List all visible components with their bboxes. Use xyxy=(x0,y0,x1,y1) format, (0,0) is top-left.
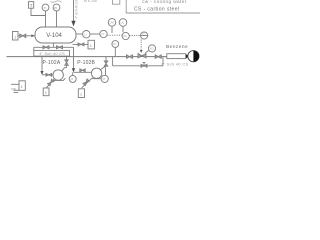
valve on vessel inlet xyxy=(20,34,23,38)
relay LY (panel circle) xyxy=(141,32,148,39)
feed line from condenser xyxy=(73,0,75,21)
block valve downstream xyxy=(155,55,158,58)
off-page box stream 1 xyxy=(13,32,19,41)
pump A suction run xyxy=(42,74,53,76)
pump B suction run xyxy=(74,71,92,73)
svg-text:4" Sch 40 CS: 4" Sch 40 CS xyxy=(75,0,79,19)
pipe spec label box 4" Sch 40 CS xyxy=(34,50,70,56)
fail-open balloon FO xyxy=(148,45,155,52)
svg-text:to E-105: to E-105 xyxy=(84,0,97,3)
suction manifold line xyxy=(34,46,74,48)
svg-text:LY: LY xyxy=(142,33,145,36)
signal LIC to LY (dashed) xyxy=(129,35,140,37)
cropped small box at top xyxy=(113,0,120,4)
manifold left leg into label box xyxy=(33,47,35,50)
pump A drain box xyxy=(43,88,49,96)
cw utility box xyxy=(19,81,25,91)
svg-text:PI: PI xyxy=(71,77,74,81)
drain box stream 2 xyxy=(88,40,95,49)
signal LY to valve (dashed) xyxy=(140,40,142,50)
pump B drain line xyxy=(82,78,93,88)
level alarm high LAH xyxy=(108,19,116,27)
pump A discharge jog xyxy=(62,57,67,71)
pump B suction drop xyxy=(73,47,75,68)
drum right nozzle to level glass xyxy=(76,33,83,35)
cw box bottom step xyxy=(14,90,20,92)
svg-text:T: T xyxy=(30,3,33,8)
bypass globe valve xyxy=(143,62,146,65)
level glass LI xyxy=(83,31,90,38)
bypass run xyxy=(113,65,163,67)
svg-text:4" Sch 40 CS: 4" Sch 40 CS xyxy=(39,52,65,56)
link to FO balloon xyxy=(145,50,149,53)
pump P-102B xyxy=(91,68,101,78)
discharge gauge PI xyxy=(112,41,119,48)
instrument TI xyxy=(42,4,49,11)
LAL stem xyxy=(122,26,124,32)
drain valve xyxy=(78,43,81,46)
svg-text:cw - cooling water: cw - cooling water xyxy=(142,0,187,5)
manifold valve B xyxy=(57,46,60,49)
svg-text:1: 1 xyxy=(45,90,48,95)
legend box border xyxy=(126,0,200,13)
pump B suction valve xyxy=(80,69,83,72)
pump A suction drop xyxy=(41,57,43,72)
manifold valve A xyxy=(43,46,46,49)
svg-text:V-104: V-104 xyxy=(46,33,62,39)
svg-text:LT: LT xyxy=(101,32,104,36)
svg-text:LAL: LAL xyxy=(120,22,125,25)
svg-text:LAH: LAH xyxy=(109,22,114,25)
svg-text:Benzene: Benzene xyxy=(166,44,188,50)
PI stem xyxy=(114,47,116,56)
wire from T box to TI stem xyxy=(31,8,46,15)
inline label box on product line xyxy=(167,54,186,59)
pump B discharge jog xyxy=(100,57,106,70)
PI stem to drum xyxy=(56,11,58,27)
svg-text:PI: PI xyxy=(103,77,106,81)
product arrowhead xyxy=(186,54,190,58)
level alarm low LAL xyxy=(119,19,127,27)
bypass tee drop xyxy=(112,57,114,66)
svg-text:PI: PI xyxy=(54,6,57,10)
bypass riser xyxy=(162,57,164,66)
level transmitter LT xyxy=(100,30,107,37)
control valve LCV xyxy=(138,54,142,58)
svg-text:1: 1 xyxy=(21,84,24,89)
vessel V-104 xyxy=(35,27,76,43)
svg-text:PI: PI xyxy=(113,42,116,46)
svg-text:1: 1 xyxy=(90,43,93,48)
pump A drain valve (diagonal) xyxy=(48,79,54,86)
check valve pump B (vertical bowtie) xyxy=(104,61,108,64)
pump P-102A xyxy=(53,70,63,80)
TI stem to drum xyxy=(45,11,47,27)
pump B drain box xyxy=(78,89,84,98)
LAH stem xyxy=(111,26,113,33)
svg-text:LI: LI xyxy=(84,32,87,36)
instrument PI xyxy=(53,4,60,11)
gauge on pump B discharge xyxy=(105,68,107,76)
drum drain to box xyxy=(73,43,89,45)
off-page connector (half filled) xyxy=(188,51,199,62)
cw line xyxy=(11,83,19,85)
svg-text:1: 1 xyxy=(80,92,83,97)
cropped squiggle text above TI/PI xyxy=(51,1,62,2)
instrument box T xyxy=(29,2,34,9)
feed arrow xyxy=(71,21,75,27)
level controller LIC xyxy=(122,32,129,39)
svg-text:P-102B: P-102B xyxy=(77,60,95,66)
pump B drain valve (diagonal) xyxy=(83,79,89,86)
drum bottom nozzle xyxy=(52,43,54,47)
svg-text:P-102A: P-102A xyxy=(43,60,61,66)
svg-text:1: 1 xyxy=(14,34,17,39)
wire valve to vessel with arrow xyxy=(26,35,32,37)
block valve upstream xyxy=(127,55,130,58)
pump A drain line xyxy=(46,79,54,88)
main header line xyxy=(7,56,186,58)
svg-text:FO: FO xyxy=(150,47,155,51)
svg-text:2" Sch 40 CS: 2" Sch 40 CS xyxy=(161,62,189,67)
svg-text:CS - carbon steel: CS - carbon steel xyxy=(134,6,179,12)
wire box to valve xyxy=(18,35,20,37)
check valve pump A (vertical bowtie) xyxy=(65,60,69,63)
signal LT to LIC (dashed) xyxy=(107,34,122,36)
gauge on pump B suction xyxy=(72,72,74,75)
svg-text:TI: TI xyxy=(43,6,46,10)
svg-text:LIC: LIC xyxy=(123,35,127,38)
pump A suction valve xyxy=(46,73,49,76)
wire LI to LT xyxy=(90,33,100,35)
